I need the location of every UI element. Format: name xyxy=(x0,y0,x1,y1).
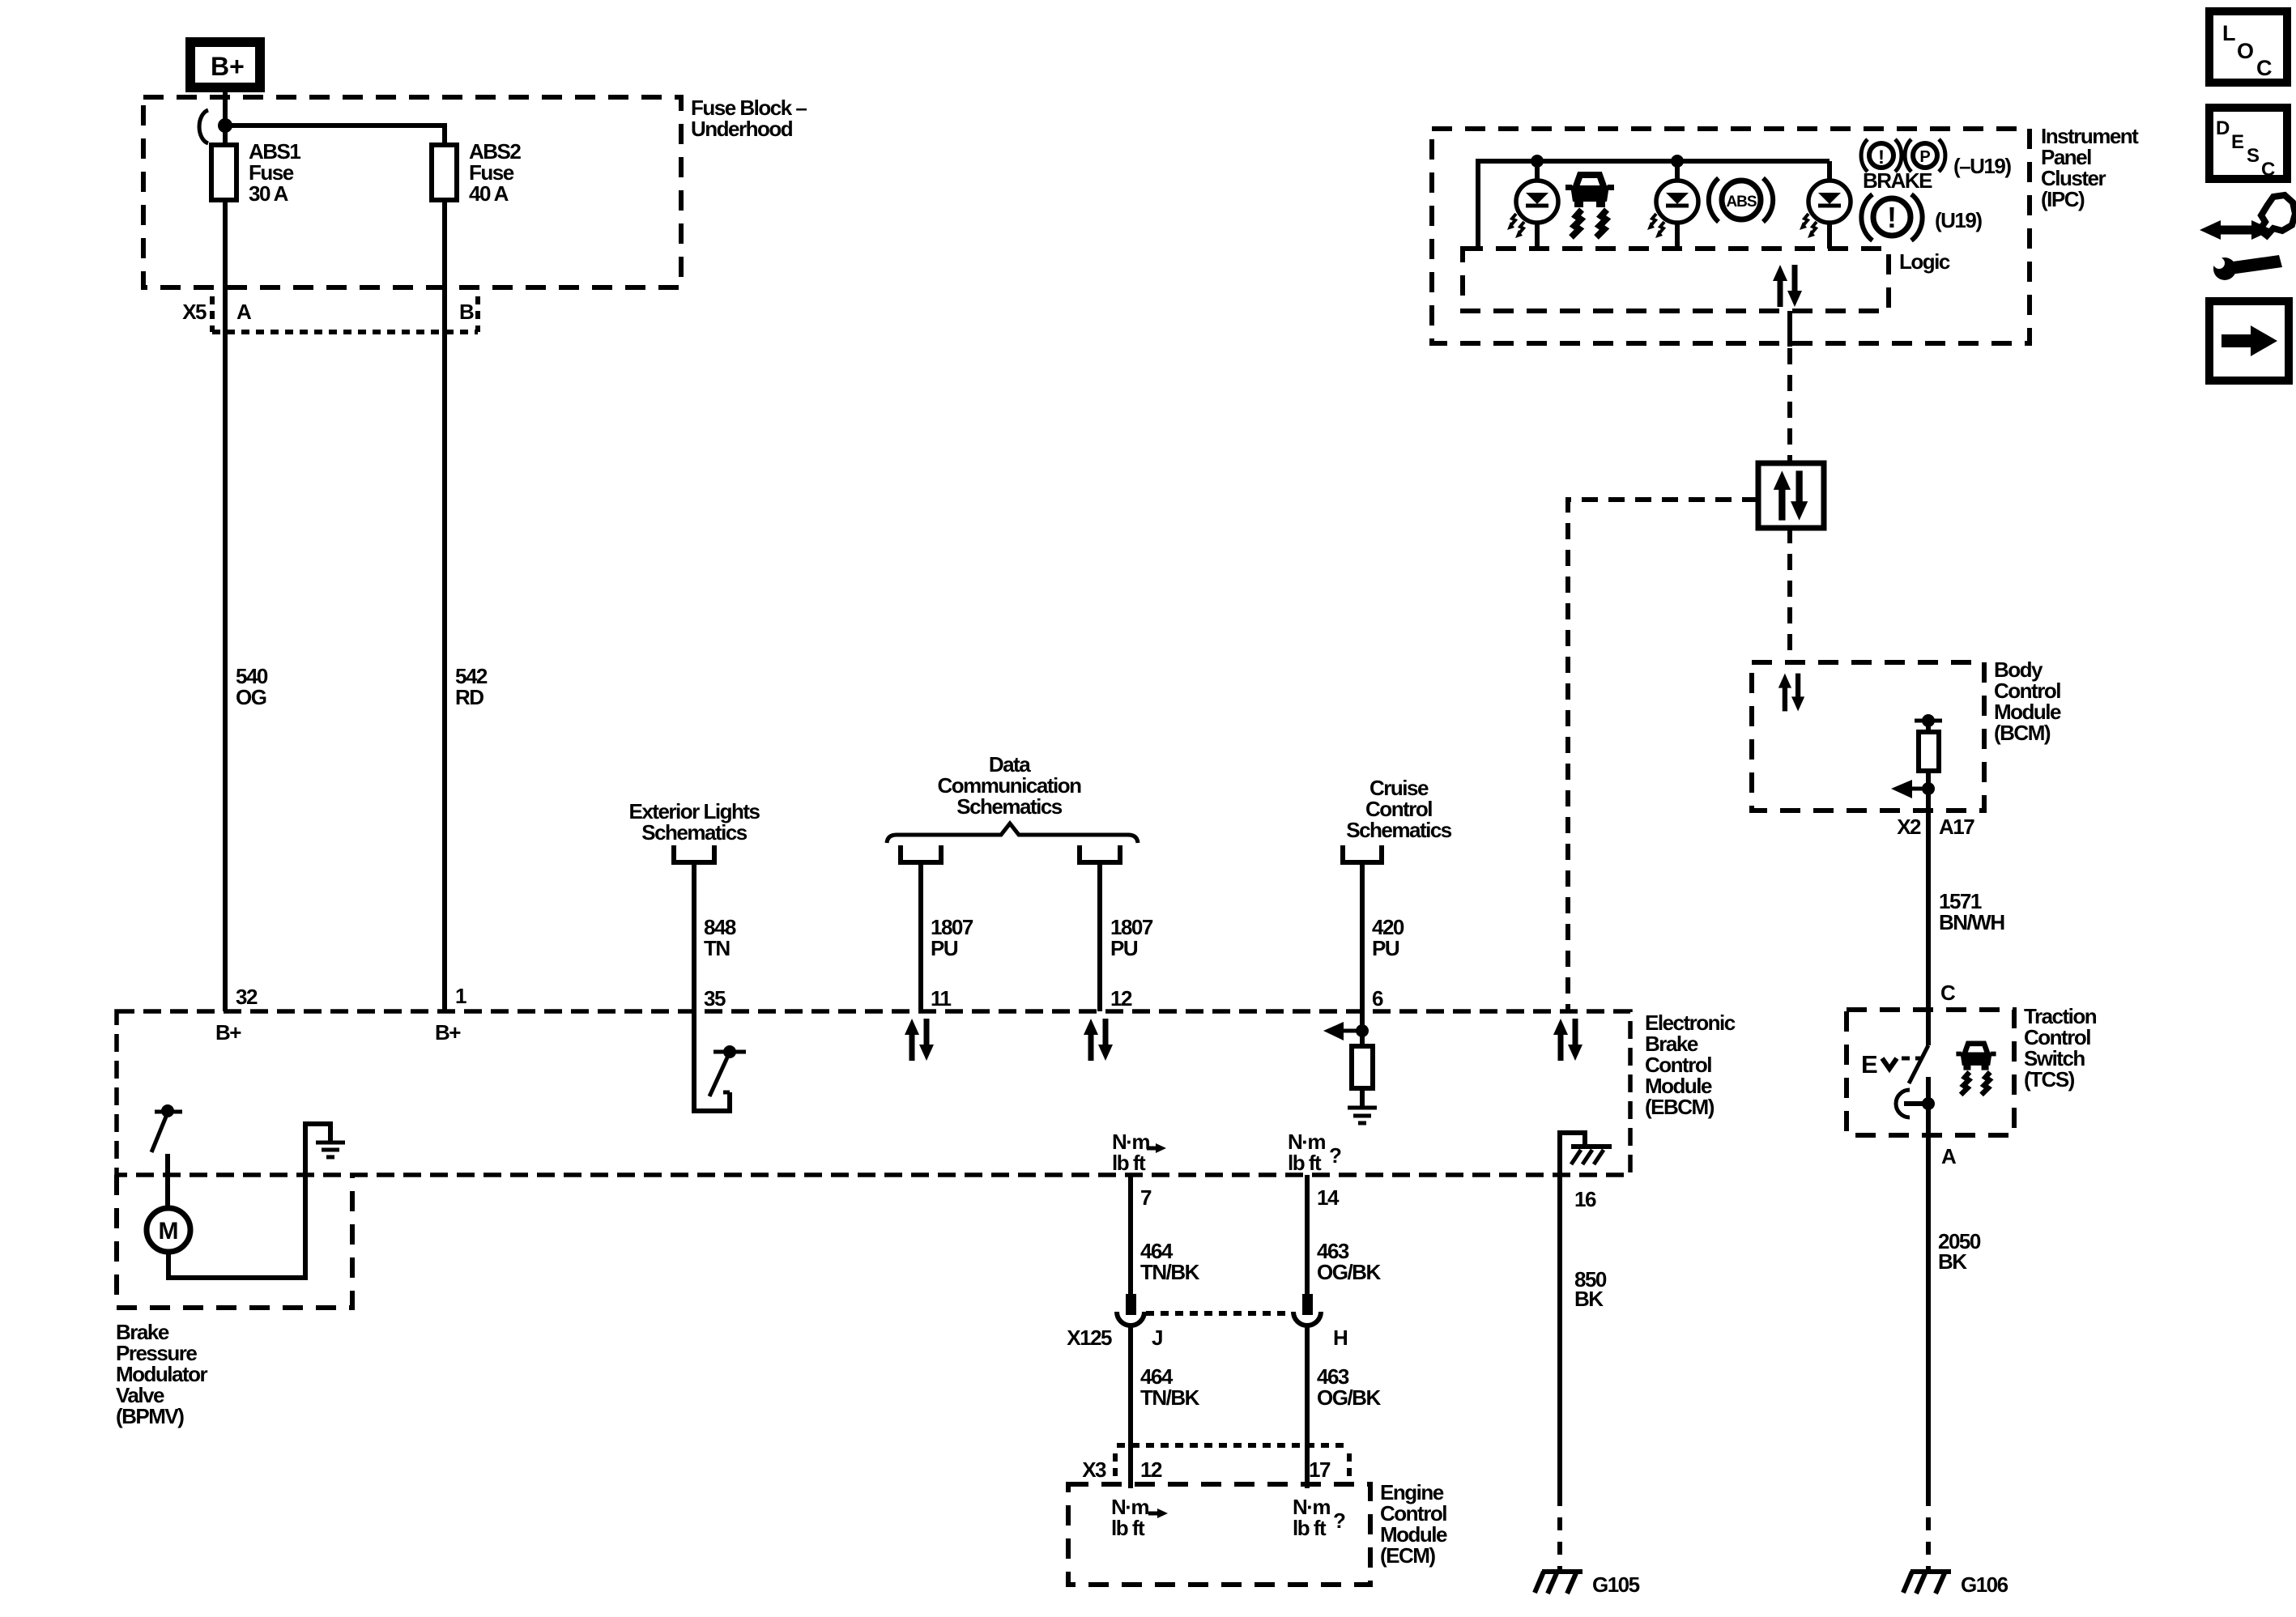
ground G106 xyxy=(1903,1572,2008,1597)
svg-text:ABS: ABS xyxy=(1726,194,1756,211)
svg-text:M: M xyxy=(159,1218,179,1245)
module ECM dashed box xyxy=(1068,1484,1370,1585)
module BPMV dashed box xyxy=(117,1175,352,1308)
connector X2 pin A17 labels xyxy=(1897,815,1974,839)
wire IPC lamp bus xyxy=(1478,161,1830,249)
svg-text:Schematics: Schematics xyxy=(1346,818,1452,842)
wire label 1571 BN/WH xyxy=(1939,889,2004,934)
icon arrow box xyxy=(2209,301,2289,381)
wire 1807 PU right xyxy=(1097,865,1102,1011)
connector X3 xyxy=(1082,1445,1349,1482)
resistor BCM pull-up xyxy=(1915,714,1942,811)
power symbol B+ xyxy=(190,42,260,87)
svg-text:12: 12 xyxy=(1140,1457,1162,1482)
icon ABS indicator xyxy=(1709,178,1773,222)
module BCM dashed box xyxy=(1752,662,1984,811)
wire IPC serial drop xyxy=(1787,311,1792,347)
svg-text:17: 17 xyxy=(1309,1457,1331,1482)
wire 420 PU xyxy=(1360,865,1365,1011)
svg-text:Underhood: Underhood xyxy=(691,117,793,141)
svg-text:!: ! xyxy=(1878,147,1885,168)
N-m lb ft label left inside ECM xyxy=(1111,1495,1168,1540)
serial data arrows pin 11 xyxy=(905,1019,934,1061)
svg-text:(U19): (U19) xyxy=(1935,208,1982,232)
N-m lb ft label right inside EBCM xyxy=(1288,1130,1341,1175)
svg-text:B: B xyxy=(459,300,474,324)
svg-text:OG/BK: OG/BK xyxy=(1317,1385,1381,1410)
label TCS xyxy=(2024,1004,2097,1091)
svg-text:PU: PU xyxy=(1110,936,1138,960)
indicator LED lamp 2 xyxy=(1647,161,1698,249)
ground G105 xyxy=(1535,1572,1640,1597)
wire 463 OG/BK lower xyxy=(1305,1327,1310,1488)
wire dashed gateway to BCM xyxy=(1787,527,1792,662)
svg-text:BN/WH: BN/WH xyxy=(1939,910,2004,934)
wire 850 BK xyxy=(1557,1175,1562,1493)
motor M pump BPMV xyxy=(147,1208,190,1252)
wire label 848 TN xyxy=(704,915,736,960)
label BCM xyxy=(1994,657,2061,745)
wire label 542 RD xyxy=(455,664,488,709)
svg-text:H: H xyxy=(1333,1326,1348,1350)
svg-text:14: 14 xyxy=(1317,1185,1340,1210)
svg-text:(EBCM): (EBCM) xyxy=(1645,1095,1715,1119)
svg-text:16: 16 xyxy=(1574,1187,1596,1211)
icon wrench with arrows xyxy=(2200,195,2295,280)
wire 848 TN xyxy=(692,865,696,1011)
switch BPMV pump relay inside EBCM xyxy=(151,1104,182,1207)
wire 1807 PU left xyxy=(918,865,923,1011)
wire dashed gateway branch to EBCM xyxy=(1568,500,1758,1011)
connector X125 pin H xyxy=(1293,1294,1321,1326)
wire label 464 TN/BK lower xyxy=(1140,1364,1200,1410)
wire 2050 BK xyxy=(1926,1135,1931,1493)
off-page connector data wire 2 xyxy=(1080,845,1120,862)
svg-text:A17: A17 xyxy=(1939,815,1974,839)
indicator LED lamp 3 xyxy=(1800,161,1851,249)
svg-text:D: D xyxy=(2216,117,2230,139)
svg-text:11: 11 xyxy=(931,986,952,1011)
serial data arrows BCM xyxy=(1778,674,1804,712)
svg-text:E: E xyxy=(1861,1050,1877,1079)
svg-text:?: ? xyxy=(1329,1143,1341,1168)
svg-text:PU: PU xyxy=(931,936,958,960)
label Cruise Control Schematics xyxy=(1346,776,1452,842)
connector X5 xyxy=(182,296,478,332)
svg-text:X2: X2 xyxy=(1897,815,1921,839)
svg-text:A: A xyxy=(1941,1144,1957,1168)
wire label 850 BK xyxy=(1574,1267,1607,1311)
icon traction control car with skid marks IPC xyxy=(1565,175,1614,237)
wire resistor to ground xyxy=(1360,1088,1365,1108)
wire 1571 BN/WH xyxy=(1926,811,1931,1010)
svg-text:lb ft: lb ft xyxy=(1288,1151,1322,1175)
svg-text:Schematics: Schematics xyxy=(641,820,748,845)
fuse ABS1 30A xyxy=(211,139,300,206)
wire 464 TN/BK lower xyxy=(1128,1327,1133,1488)
wire branch to ABS2 fuse xyxy=(225,126,445,1011)
svg-text:C: C xyxy=(1940,981,1956,1005)
wire label 464 TN/BK upper xyxy=(1140,1239,1200,1284)
brace over data wires xyxy=(887,823,1138,843)
svg-text:(TCS): (TCS) xyxy=(2024,1067,2075,1091)
wire label 2050 BK xyxy=(1938,1229,1981,1274)
wire 464 TN/BK upper xyxy=(1128,1175,1133,1296)
wire label 540 OG xyxy=(236,664,268,709)
svg-text:lb ft: lb ft xyxy=(1293,1516,1327,1540)
node junction at B+ feed xyxy=(218,118,232,133)
icon brake warning telltale U19 xyxy=(1861,194,1922,240)
node BCM output junction with arrow xyxy=(1891,780,1935,798)
svg-text:(BCM): (BCM) xyxy=(1994,721,2051,745)
svg-text:PU: PU xyxy=(1372,936,1399,960)
svg-text:lb ft: lb ft xyxy=(1111,1516,1145,1540)
ground earth symbol BPMV xyxy=(316,1143,345,1157)
connector X125 dashed line xyxy=(1146,1311,1289,1316)
cruise input branch inside EBCM xyxy=(1323,1011,1369,1046)
icon traction control car with skid marks TCS xyxy=(1956,1044,1996,1095)
label Fuse Block Underhood xyxy=(691,96,807,141)
svg-text:Logic: Logic xyxy=(1899,249,1950,274)
svg-text:OG: OG xyxy=(236,685,266,709)
svg-text:C: C xyxy=(2256,56,2273,80)
svg-text:Schematics: Schematics xyxy=(956,794,1063,819)
svg-text:L: L xyxy=(2222,21,2236,45)
label Data Communication Schematics xyxy=(938,752,1082,819)
off-page connector cruise xyxy=(1343,845,1382,862)
N-m lb ft label left inside EBCM xyxy=(1112,1130,1166,1175)
icon LOC box xyxy=(2209,11,2287,83)
svg-text:RD: RD xyxy=(455,685,483,709)
svg-text:TN/BK: TN/BK xyxy=(1140,1260,1200,1284)
svg-text:B+: B+ xyxy=(435,1020,461,1045)
wire label 1807 PU right xyxy=(1110,915,1153,960)
svg-text:X3: X3 xyxy=(1082,1457,1106,1482)
svg-text:B+: B+ xyxy=(215,1020,241,1045)
svg-text:40 A: 40 A xyxy=(469,181,509,206)
label IPC xyxy=(2041,124,2139,211)
wire 540 OG vertical from B+ through ABS1 fuse to EBCM pin 32 xyxy=(223,87,228,1011)
svg-text:E: E xyxy=(2231,131,2244,153)
svg-text:BK: BK xyxy=(1574,1287,1604,1311)
resistor cruise pull-down xyxy=(1352,1046,1373,1088)
svg-text:1: 1 xyxy=(455,984,466,1008)
svg-text:32: 32 xyxy=(236,985,258,1009)
connector X125 pin J xyxy=(1117,1294,1144,1326)
module EBCM dashed box xyxy=(117,1011,1630,1175)
off-page connector exterior lights xyxy=(674,845,714,862)
fuse ABS2 40A xyxy=(432,139,521,206)
svg-text:TN/BK: TN/BK xyxy=(1140,1385,1200,1410)
svg-text:(ECM): (ECM) xyxy=(1380,1543,1435,1568)
wire dashed serial IPC to gateway xyxy=(1787,348,1792,464)
svg-text:30 A: 30 A xyxy=(249,181,289,206)
svg-text:O: O xyxy=(2237,39,2254,63)
wire label 1807 PU left xyxy=(931,915,973,960)
serial data arrows IPC logic xyxy=(1773,265,1802,307)
svg-text:G105: G105 xyxy=(1592,1572,1640,1597)
serial data gateway box xyxy=(1758,463,1824,528)
svg-text:OG/BK: OG/BK xyxy=(1317,1260,1381,1284)
label ECM xyxy=(1380,1480,1447,1568)
wire label 420 PU xyxy=(1372,915,1404,960)
svg-text:BRAKE: BRAKE xyxy=(1863,168,1932,193)
svg-text:P: P xyxy=(1919,148,1930,166)
fuse block underhood dashed box xyxy=(143,97,681,287)
connector X125 labels xyxy=(1067,1326,1348,1350)
svg-text:?: ? xyxy=(1333,1508,1345,1533)
svg-text:J: J xyxy=(1152,1326,1162,1350)
label EBCM xyxy=(1645,1011,1736,1119)
wire label 463 OG/BK upper xyxy=(1317,1239,1381,1284)
svg-text:G106: G106 xyxy=(1961,1572,2008,1597)
node bus junction 2 xyxy=(1671,155,1684,168)
svg-text:(–U19): (–U19) xyxy=(1953,154,2011,178)
svg-text:TN: TN xyxy=(704,936,730,960)
indicator LED lamp 1 xyxy=(1507,161,1558,249)
node bus junction 1 xyxy=(1531,155,1544,168)
icon brake warning circle-P telltale xyxy=(1861,139,1945,172)
wire motor to ground xyxy=(168,1124,330,1278)
wire 463 OG/BK upper xyxy=(1305,1175,1310,1296)
module TCS dashed box xyxy=(1847,1010,2014,1135)
svg-text:35: 35 xyxy=(704,986,726,1011)
svg-text:B+: B+ xyxy=(211,52,245,81)
switch TCS momentary xyxy=(1861,1010,1935,1135)
svg-text:!: ! xyxy=(1887,201,1897,234)
svg-text:S: S xyxy=(2247,145,2260,167)
svg-text:C: C xyxy=(2261,159,2275,181)
svg-text:X5: X5 xyxy=(182,300,207,324)
svg-text:12: 12 xyxy=(1110,986,1132,1011)
svg-text:(BPMV): (BPMV) xyxy=(116,1404,184,1428)
ground earth symbol cruise xyxy=(1348,1108,1377,1123)
off-page connector data wire 1 xyxy=(901,845,941,862)
logic block dashed box xyxy=(1463,249,1889,311)
icon DESC box xyxy=(2209,108,2287,181)
ground chassis symbol inside EBCM pin 16 xyxy=(1560,1133,1612,1175)
wire dashed to G105 xyxy=(1557,1493,1562,1572)
svg-text:X125: X125 xyxy=(1067,1326,1112,1350)
wire dashed to G106 xyxy=(1926,1493,1931,1572)
svg-text:(IPC): (IPC) xyxy=(2041,187,2085,211)
label BPMV xyxy=(116,1320,208,1428)
svg-text:6: 6 xyxy=(1372,986,1383,1011)
wire label 463 OG/BK lower xyxy=(1317,1364,1381,1410)
switch exterior lamps relay inside EBCM xyxy=(694,1011,746,1111)
svg-text:7: 7 xyxy=(1140,1185,1152,1210)
svg-text:A: A xyxy=(236,300,252,324)
svg-text:BK: BK xyxy=(1938,1249,1967,1274)
serial data arrows EBCM left xyxy=(1553,1019,1582,1061)
module IPC dashed box xyxy=(1432,129,2030,343)
splice arc mark xyxy=(199,110,208,143)
N-m lb ft label right inside ECM xyxy=(1293,1495,1345,1540)
svg-text:lb ft: lb ft xyxy=(1112,1151,1146,1175)
serial data arrows pin 12 xyxy=(1084,1019,1113,1061)
label Exterior Lights Schematics xyxy=(629,799,760,845)
